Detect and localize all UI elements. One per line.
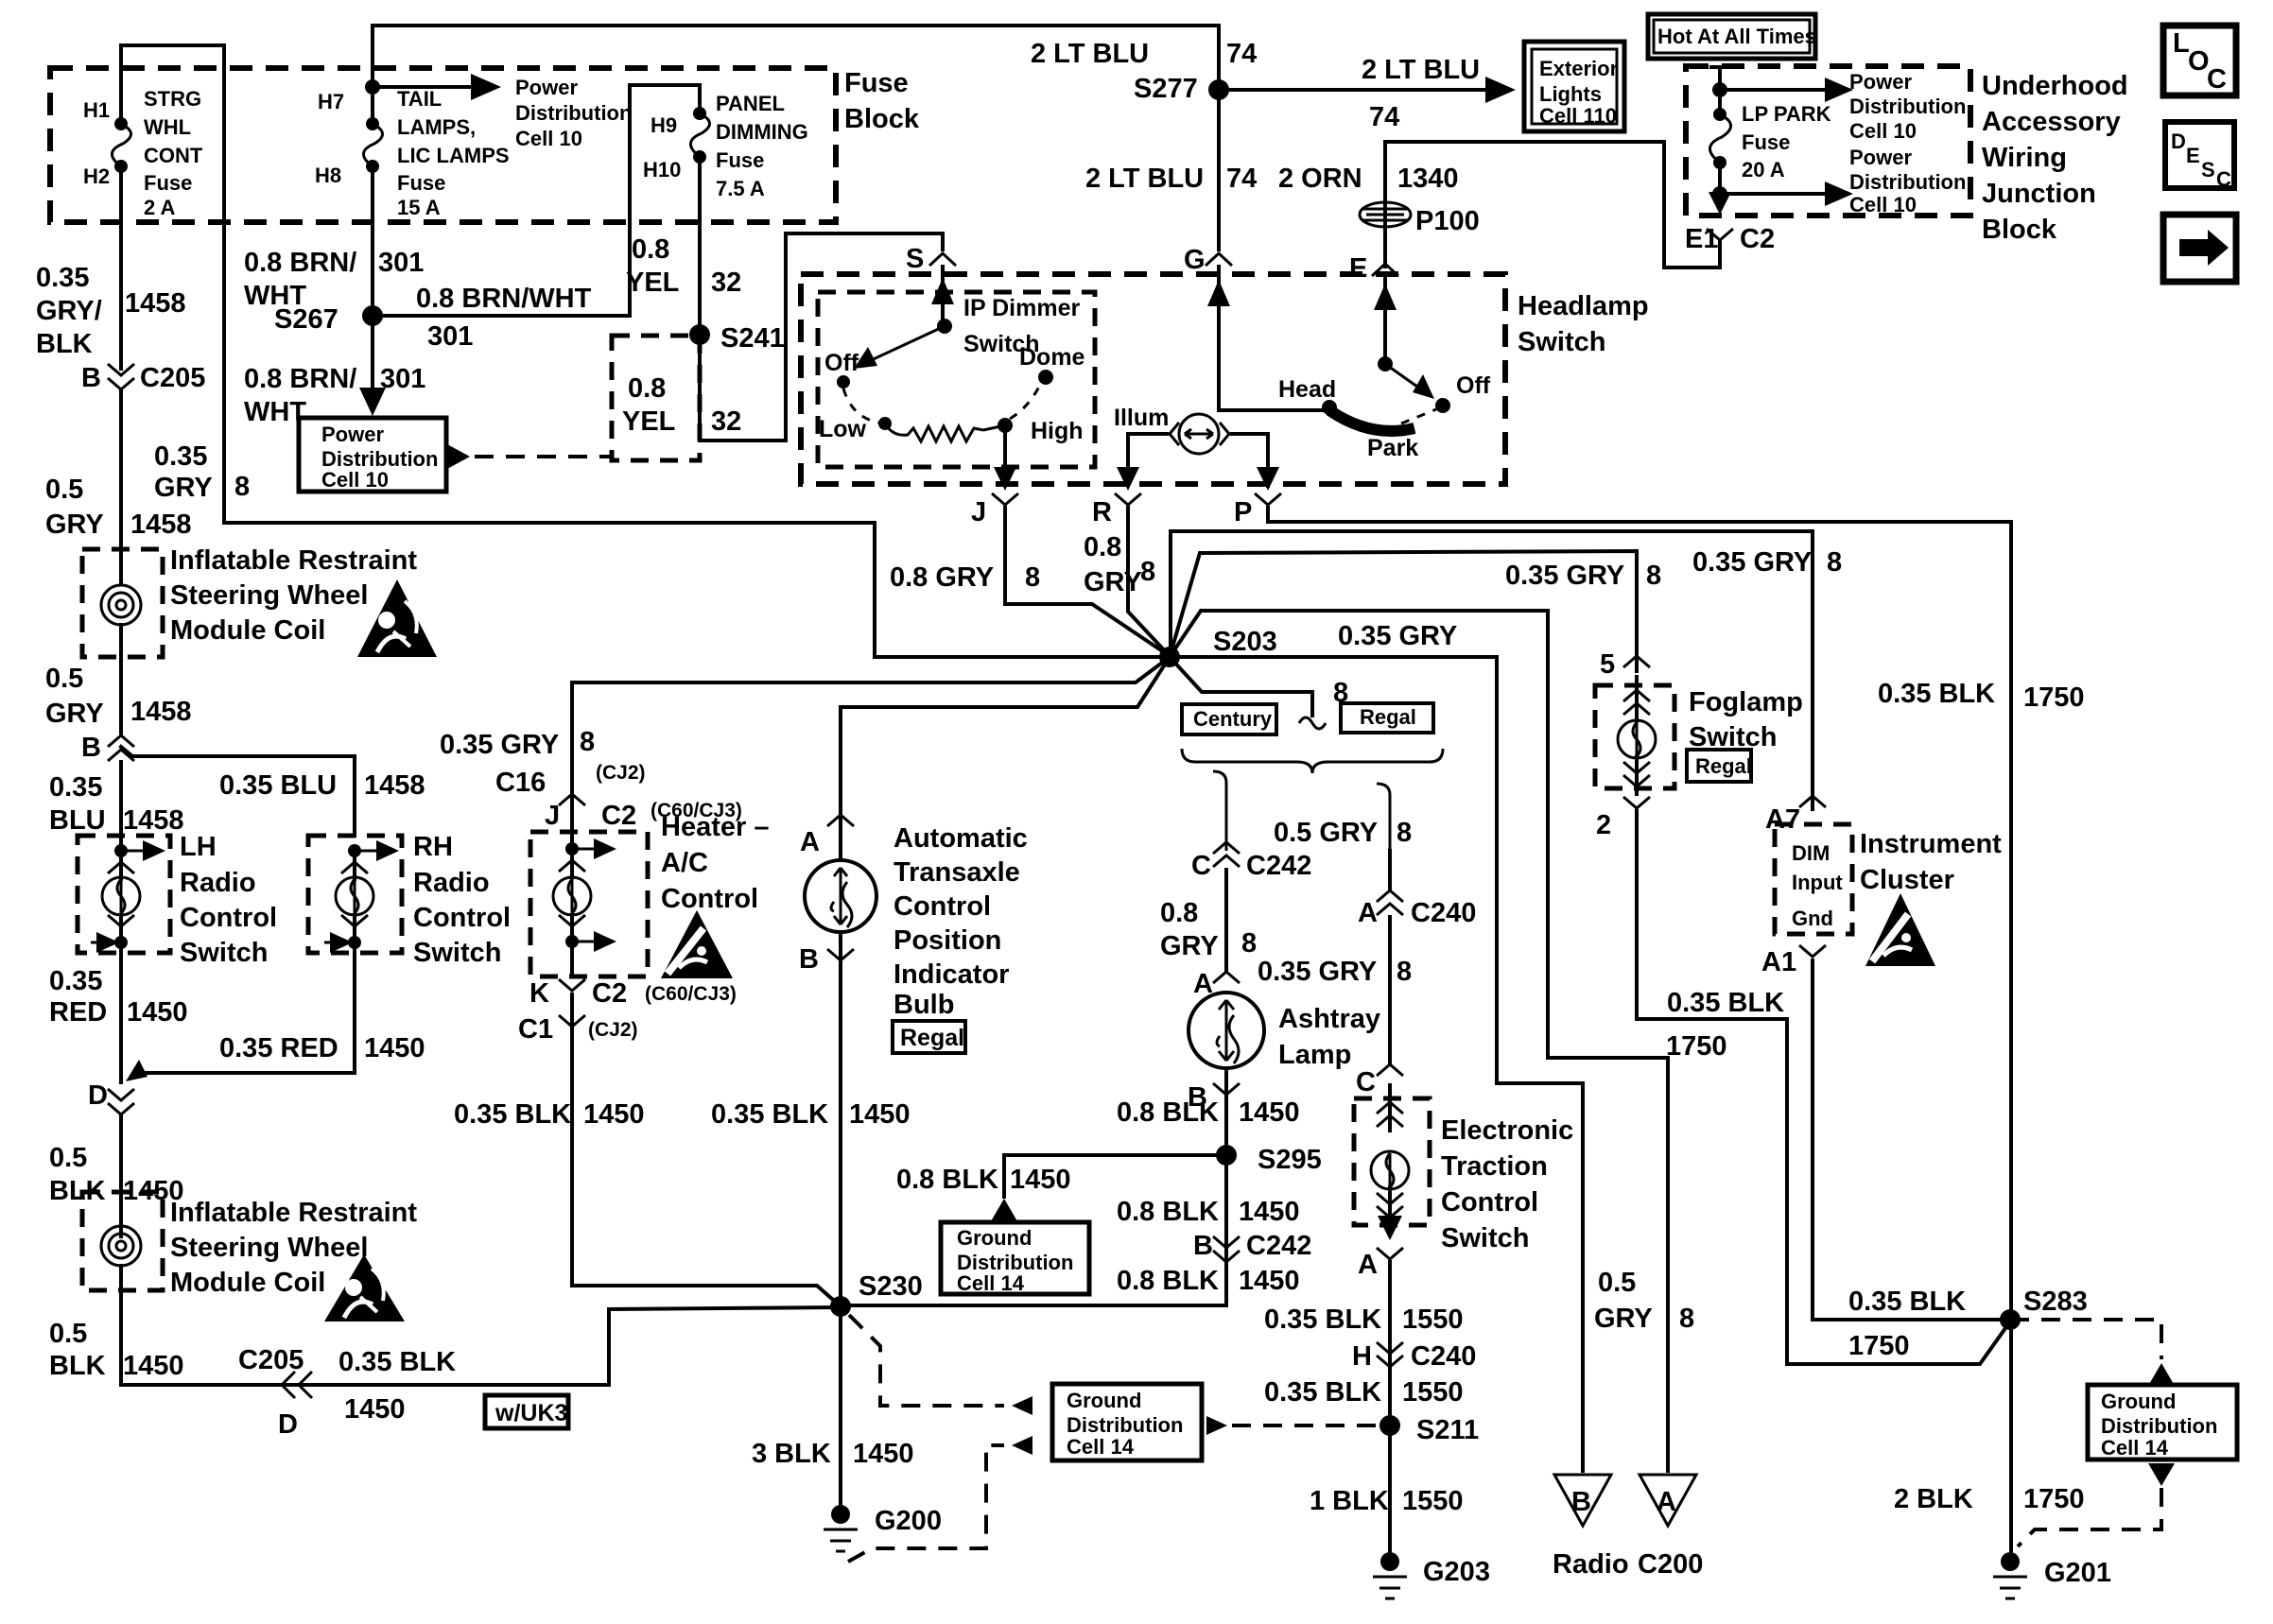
svg-text:A: A [1193, 969, 1213, 999]
svg-text:Ashtray: Ashtray [1278, 1004, 1380, 1034]
svg-text:1458: 1458 [125, 288, 186, 319]
svg-text:Accessory: Accessory [1982, 107, 2121, 137]
svg-text:2 LT BLU: 2 LT BLU [1362, 55, 1480, 85]
svg-text:C: C [1191, 851, 1211, 881]
svg-text:K: K [529, 978, 549, 1009]
svg-text:0.35: 0.35 [49, 772, 102, 803]
svg-text:8: 8 [1827, 547, 1842, 578]
svg-text:301: 301 [378, 248, 424, 278]
svg-text:C2: C2 [592, 978, 627, 1009]
svg-text:G: G [1184, 245, 1206, 275]
svg-text:0.35 BLK: 0.35 BLK [454, 1099, 571, 1130]
svg-text:Foglamp: Foglamp [1689, 687, 1803, 717]
svg-text:Exterior: Exterior [1539, 57, 1619, 80]
svg-text:0.35 BLK: 0.35 BLK [1264, 1377, 1381, 1408]
svg-text:2 BLK: 2 BLK [1894, 1484, 1973, 1514]
svg-text:Steering Wheel: Steering Wheel [170, 580, 369, 611]
svg-text:GRY: GRY [1594, 1304, 1653, 1334]
svg-text:S267: S267 [274, 304, 338, 335]
svg-text:A: A [1657, 1487, 1676, 1517]
svg-text:1458: 1458 [123, 805, 184, 836]
svg-text:BLK: BLK [49, 1176, 106, 1206]
svg-text:0.8: 0.8 [1084, 532, 1121, 562]
svg-text:1550: 1550 [1402, 1377, 1464, 1408]
svg-text:Distribution: Distribution [2101, 1414, 2217, 1438]
svg-text:Block: Block [1982, 215, 2057, 245]
svg-text:BLK: BLK [36, 329, 93, 359]
svg-text:YEL: YEL [622, 406, 675, 437]
svg-text:1450: 1450 [127, 997, 188, 1028]
svg-text:74: 74 [1369, 102, 1399, 132]
svg-text:Inflatable Restraint: Inflatable Restraint [170, 1198, 417, 1228]
svg-text:C240: C240 [1411, 898, 1476, 928]
svg-text:A/C: A/C [661, 848, 708, 878]
svg-text:B: B [81, 733, 101, 763]
svg-text:8: 8 [1646, 561, 1661, 591]
svg-text:0.35 BLK: 0.35 BLK [1264, 1304, 1381, 1335]
svg-text:GRY: GRY [1160, 931, 1219, 961]
svg-text:32: 32 [711, 406, 741, 437]
svg-text:G203: G203 [1423, 1557, 1490, 1587]
svg-text:S241: S241 [720, 323, 785, 354]
svg-text:Regal: Regal [900, 1025, 964, 1051]
svg-text:1340: 1340 [1397, 164, 1459, 194]
svg-text:1450: 1450 [1239, 1197, 1300, 1227]
svg-text:A: A [800, 827, 820, 857]
svg-text:J: J [971, 497, 986, 527]
svg-text:Control: Control [413, 903, 511, 933]
svg-text:0.8 GRY: 0.8 GRY [890, 562, 994, 593]
svg-text:8: 8 [580, 727, 595, 757]
svg-text:Fuse: Fuse [844, 68, 909, 98]
svg-text:RH: RH [413, 832, 453, 862]
svg-text:1750: 1750 [2023, 1484, 2085, 1514]
svg-text:R: R [1092, 497, 1112, 527]
svg-text:Power: Power [1849, 70, 1912, 94]
svg-text:8: 8 [1679, 1304, 1694, 1334]
svg-text:Switch: Switch [413, 938, 501, 968]
svg-text:Cell 14: Cell 14 [957, 1271, 1025, 1295]
svg-text:(CJ2): (CJ2) [588, 1019, 638, 1041]
svg-text:Wiring: Wiring [1982, 143, 2067, 173]
svg-text:D: D [2171, 130, 2186, 153]
svg-text:Off: Off [1456, 372, 1491, 399]
svg-text:Power: Power [515, 76, 578, 99]
svg-text:0.35 GRY: 0.35 GRY [1258, 957, 1377, 987]
svg-text:Headlamp: Headlamp [1518, 291, 1649, 321]
svg-text:A1: A1 [1761, 947, 1796, 977]
svg-text:C205: C205 [140, 363, 205, 393]
svg-text:S230: S230 [859, 1271, 923, 1302]
svg-text:0.35 BLK: 0.35 BLK [1848, 1287, 1966, 1317]
svg-text:0.35 GRY: 0.35 GRY [1692, 547, 1812, 578]
svg-text:G201: G201 [2044, 1558, 2111, 1588]
svg-text:S203: S203 [1213, 627, 1277, 657]
svg-text:WHT: WHT [244, 397, 306, 427]
svg-text:E1: E1 [1685, 224, 1718, 254]
svg-text:Control: Control [661, 884, 758, 914]
svg-text:8: 8 [1140, 557, 1155, 587]
svg-text:Ground: Ground [957, 1226, 1032, 1250]
svg-text:Fuse: Fuse [716, 148, 764, 172]
svg-text:2: 2 [1596, 810, 1611, 840]
svg-text:Traction: Traction [1441, 1151, 1548, 1182]
svg-text:GRY: GRY [154, 473, 213, 503]
svg-text:74: 74 [1226, 39, 1257, 69]
svg-text:C242: C242 [1246, 851, 1311, 881]
svg-text:15 A: 15 A [397, 196, 441, 219]
svg-text:H10: H10 [643, 158, 681, 181]
svg-text:Regal: Regal [1360, 705, 1416, 729]
svg-text:0.35 BLU: 0.35 BLU [219, 770, 337, 801]
svg-text:0.8: 0.8 [628, 373, 666, 404]
svg-text:0.8 BLK: 0.8 BLK [896, 1165, 998, 1195]
svg-text:C: C [2207, 64, 2227, 95]
svg-text:Distribution: Distribution [1849, 170, 1966, 194]
svg-text:Cell 14: Cell 14 [2101, 1436, 2169, 1460]
svg-text:Hot At All Times: Hot At All Times [1657, 25, 1816, 48]
svg-text:8: 8 [1241, 928, 1257, 959]
svg-text:S295: S295 [1258, 1145, 1322, 1175]
svg-text:1450: 1450 [364, 1033, 425, 1063]
svg-text:8: 8 [234, 472, 250, 502]
svg-text:LH: LH [180, 832, 217, 862]
svg-text:C205: C205 [238, 1345, 304, 1375]
svg-text:A: A [1358, 1250, 1378, 1280]
svg-text:Steering Wheel: Steering Wheel [170, 1233, 369, 1263]
svg-text:0.8 BRN/: 0.8 BRN/ [244, 364, 356, 394]
svg-text:Century: Century [1193, 707, 1273, 731]
svg-text:8: 8 [1397, 957, 1412, 987]
svg-text:Low: Low [819, 416, 867, 442]
svg-text:A: A [1358, 898, 1378, 928]
svg-text:E: E [1349, 253, 1367, 284]
svg-text:0.35 BLK: 0.35 BLK [1878, 679, 1995, 709]
svg-text:8: 8 [1025, 562, 1040, 593]
svg-text:5: 5 [1600, 649, 1615, 680]
svg-text:Radio: Radio [1553, 1549, 1629, 1580]
svg-text:A7: A7 [1765, 804, 1800, 835]
svg-text:H9: H9 [651, 113, 677, 137]
svg-text:0.5: 0.5 [49, 1319, 87, 1349]
svg-text:Fuse: Fuse [144, 171, 192, 195]
svg-text:0.35: 0.35 [36, 263, 89, 293]
svg-text:0.5 GRY: 0.5 GRY [1274, 818, 1378, 848]
svg-text:0.5: 0.5 [1598, 1268, 1636, 1298]
svg-text:D: D [88, 1080, 108, 1111]
svg-text:Cell 110: Cell 110 [1539, 104, 1617, 128]
svg-text:E: E [2186, 144, 2200, 167]
svg-text:Cell 10: Cell 10 [1849, 119, 1917, 143]
svg-text:0.35 BLK: 0.35 BLK [338, 1347, 456, 1377]
svg-text:1458: 1458 [364, 770, 425, 801]
svg-text:1550: 1550 [1402, 1304, 1464, 1335]
svg-text:Position: Position [894, 925, 1001, 956]
svg-text:Module Coil: Module Coil [170, 615, 325, 646]
svg-text:C16: C16 [495, 768, 546, 798]
svg-text:Illum: Illum [1114, 405, 1169, 431]
svg-text:Indicator: Indicator [894, 959, 1009, 990]
svg-text:Switch: Switch [1689, 722, 1777, 752]
svg-text:PANEL: PANEL [716, 92, 785, 115]
svg-text:Electronic: Electronic [1441, 1115, 1573, 1146]
svg-text:C200: C200 [1638, 1549, 1703, 1580]
svg-text:(CJ2): (CJ2) [596, 762, 646, 784]
svg-text:2 LT BLU: 2 LT BLU [1031, 39, 1149, 69]
svg-text:Automatic: Automatic [894, 823, 1028, 854]
svg-text:0.8: 0.8 [1160, 898, 1198, 928]
svg-text:0.8: 0.8 [632, 234, 669, 265]
svg-text:Junction: Junction [1982, 179, 2096, 209]
svg-text:Radio: Radio [413, 868, 490, 898]
svg-text:2 ORN: 2 ORN [1278, 164, 1362, 194]
svg-text:S211: S211 [1416, 1415, 1479, 1445]
svg-text:Switch: Switch [1441, 1223, 1529, 1253]
svg-text:Power: Power [1849, 146, 1912, 169]
svg-text:0.35 BLK: 0.35 BLK [1667, 988, 1784, 1018]
svg-text:1450: 1450 [344, 1394, 406, 1425]
svg-text:D: D [278, 1409, 298, 1440]
svg-text:2 LT BLU: 2 LT BLU [1085, 164, 1204, 194]
svg-text:0.35 BLK: 0.35 BLK [711, 1099, 828, 1130]
svg-text:Fuse: Fuse [1742, 130, 1790, 154]
svg-text:Control: Control [1441, 1187, 1538, 1218]
svg-text:Cell 14: Cell 14 [1067, 1435, 1135, 1459]
svg-text:H7: H7 [318, 90, 344, 113]
svg-text:1450: 1450 [849, 1099, 911, 1130]
svg-text:Input: Input [1792, 871, 1843, 894]
svg-text:J: J [545, 801, 560, 831]
svg-text:1450: 1450 [583, 1099, 645, 1130]
svg-text:Lights: Lights [1539, 82, 1602, 106]
svg-text:0.35: 0.35 [49, 966, 102, 996]
svg-text:0.35 GRY: 0.35 GRY [1505, 561, 1624, 591]
svg-text:1450: 1450 [853, 1439, 914, 1469]
svg-text:Module Coil: Module Coil [170, 1268, 325, 1298]
svg-text:YEL: YEL [626, 268, 679, 298]
svg-text:1 BLK: 1 BLK [1310, 1486, 1389, 1516]
svg-text:Regal: Regal [1695, 754, 1752, 778]
svg-text:H: H [1352, 1341, 1372, 1372]
svg-text:Cell 10: Cell 10 [1849, 193, 1917, 216]
svg-text:S277: S277 [1134, 74, 1198, 104]
svg-text:TAIL: TAIL [397, 87, 442, 111]
svg-text:Control: Control [894, 891, 991, 922]
svg-text:0.35 RED: 0.35 RED [219, 1033, 338, 1063]
svg-text:0.8 BRN/WHT: 0.8 BRN/WHT [416, 284, 592, 314]
svg-text:S283: S283 [2023, 1287, 2088, 1317]
svg-text:DIM: DIM [1792, 841, 1830, 865]
svg-text:DIMMING: DIMMING [716, 120, 808, 144]
svg-text:301: 301 [380, 364, 425, 394]
svg-text:Bulb: Bulb [894, 990, 954, 1020]
svg-text:Control: Control [180, 903, 277, 933]
svg-text:RED: RED [49, 997, 107, 1028]
svg-text:0.5: 0.5 [45, 664, 83, 694]
svg-text:P: P [1234, 497, 1252, 527]
svg-text:Lamp: Lamp [1278, 1040, 1351, 1070]
svg-text:3 BLK: 3 BLK [752, 1439, 831, 1469]
svg-text:74: 74 [1226, 164, 1257, 194]
svg-text:1550: 1550 [1402, 1486, 1464, 1516]
svg-text:1450: 1450 [1010, 1165, 1071, 1195]
svg-text:B: B [1571, 1487, 1591, 1517]
svg-text:w/UK3: w/UK3 [495, 1400, 567, 1426]
svg-text:1750: 1750 [1848, 1331, 1910, 1361]
svg-text:1750: 1750 [2023, 682, 2085, 713]
svg-text:(C60/CJ3): (C60/CJ3) [645, 983, 737, 1005]
svg-text:1458: 1458 [130, 697, 192, 727]
svg-text:H2: H2 [83, 164, 110, 188]
svg-text:Cell 10: Cell 10 [515, 127, 582, 150]
svg-text:GRY: GRY [45, 699, 104, 729]
svg-text:STRG: STRG [144, 87, 201, 111]
svg-text:C2: C2 [601, 801, 636, 831]
svg-text:1458: 1458 [130, 510, 192, 540]
svg-text:C2: C2 [1740, 224, 1775, 254]
svg-text:B: B [799, 944, 819, 975]
svg-text:0.8 BLK: 0.8 BLK [1117, 1097, 1219, 1128]
svg-text:GRY: GRY [45, 510, 104, 540]
svg-text:Switch: Switch [1518, 327, 1605, 357]
svg-text:0.8 BLK: 0.8 BLK [1117, 1266, 1219, 1296]
svg-text:H1: H1 [83, 98, 110, 122]
svg-text:Switch: Switch [180, 938, 268, 968]
svg-text:C: C [1356, 1067, 1376, 1097]
svg-text:C1: C1 [518, 1014, 553, 1045]
svg-text:S: S [2201, 158, 2215, 181]
svg-text:GRY: GRY [1084, 567, 1142, 597]
svg-text:Inflatable Restraint: Inflatable Restraint [170, 545, 417, 576]
svg-text:BLU: BLU [49, 805, 106, 836]
svg-text:Radio: Radio [180, 868, 256, 898]
svg-text:Instrument: Instrument [1860, 829, 2002, 859]
svg-text:IP Dimmer: IP Dimmer [963, 295, 1080, 321]
svg-text:GRY/: GRY/ [36, 296, 102, 326]
svg-text:B: B [81, 363, 101, 393]
svg-text:H8: H8 [315, 164, 341, 187]
svg-text:0.5: 0.5 [49, 1143, 87, 1173]
svg-text:Distribution: Distribution [1849, 95, 1966, 118]
svg-text:Cluster: Cluster [1860, 865, 1954, 895]
svg-text:LAMPS,: LAMPS, [397, 115, 476, 139]
svg-text:8: 8 [1333, 678, 1348, 708]
svg-text:C240: C240 [1411, 1341, 1476, 1372]
svg-text:B: B [1193, 1231, 1213, 1261]
svg-text:Distribution: Distribution [1067, 1413, 1183, 1437]
svg-text:0.8 BLK: 0.8 BLK [1117, 1197, 1219, 1227]
svg-text:Ground: Ground [1067, 1389, 1141, 1412]
svg-text:High: High [1031, 418, 1084, 444]
svg-text:1450: 1450 [1239, 1097, 1300, 1128]
svg-text:CONT: CONT [144, 144, 203, 167]
svg-text:(C60/CJ3): (C60/CJ3) [651, 800, 742, 821]
svg-text:0.35 GRY: 0.35 GRY [440, 730, 559, 760]
svg-text:LP PARK: LP PARK [1742, 102, 1831, 126]
svg-text:Ground: Ground [2101, 1390, 2176, 1413]
svg-text:8: 8 [1397, 818, 1412, 848]
svg-text:20 A: 20 A [1742, 158, 1785, 181]
svg-text:301: 301 [427, 321, 473, 352]
svg-text:7.5 A: 7.5 A [716, 177, 765, 200]
svg-text:0.5: 0.5 [45, 475, 83, 505]
svg-text:Distribution: Distribution [515, 101, 632, 125]
svg-text:S: S [906, 244, 924, 274]
svg-text:C: C [2216, 167, 2231, 191]
svg-text:Underhood: Underhood [1982, 71, 2128, 101]
svg-text:Gnd: Gnd [1792, 907, 1833, 930]
svg-text:1450: 1450 [1239, 1266, 1300, 1296]
svg-text:Power: Power [321, 423, 384, 446]
svg-text:1750: 1750 [1666, 1031, 1727, 1062]
svg-text:Park: Park [1367, 435, 1418, 461]
svg-text:Fuse: Fuse [397, 171, 445, 195]
svg-text:Dome: Dome [1019, 344, 1085, 371]
svg-text:0.35 GRY: 0.35 GRY [1338, 621, 1457, 651]
svg-text:LIC LAMPS: LIC LAMPS [397, 144, 510, 167]
svg-text:P100: P100 [1415, 206, 1480, 236]
svg-text:Head: Head [1278, 376, 1336, 403]
svg-text:BLK: BLK [49, 1351, 106, 1381]
svg-text:1450: 1450 [123, 1351, 184, 1381]
svg-text:Cell 10: Cell 10 [321, 468, 389, 492]
svg-text:Block: Block [844, 104, 920, 134]
svg-text:Off: Off [824, 350, 859, 376]
svg-text:0.35: 0.35 [154, 441, 207, 472]
svg-text:WHL: WHL [144, 115, 191, 139]
svg-text:Transaxle: Transaxle [894, 857, 1020, 888]
svg-text:2 A: 2 A [144, 196, 176, 219]
svg-text:32: 32 [711, 268, 741, 298]
svg-text:C242: C242 [1246, 1231, 1311, 1261]
svg-text:0.8 BRN/: 0.8 BRN/ [244, 248, 356, 278]
svg-text:G200: G200 [875, 1506, 942, 1536]
